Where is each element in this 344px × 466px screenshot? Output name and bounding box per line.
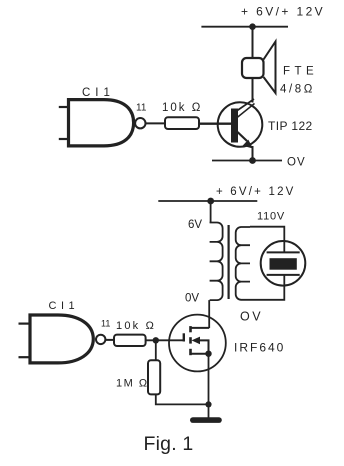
svg-text:4/8Ω: 4/8Ω xyxy=(280,84,315,96)
svg-text:+ 6V/+ 12V: + 6V/+ 12V xyxy=(216,186,296,198)
svg-text:FTE: FTE xyxy=(283,66,318,78)
svg-text:CI1: CI1 xyxy=(82,87,115,99)
svg-text:1M Ω: 1M Ω xyxy=(116,378,149,390)
svg-text:10k Ω: 10k Ω xyxy=(162,102,202,114)
svg-text:11: 11 xyxy=(136,103,147,114)
svg-text:10k Ω: 10k Ω xyxy=(116,320,156,332)
svg-text:110V: 110V xyxy=(257,210,285,222)
svg-text:CI1: CI1 xyxy=(49,300,80,312)
svg-text:OV: OV xyxy=(240,309,263,323)
svg-text:TIP 122: TIP 122 xyxy=(268,119,313,133)
svg-text:Fig. 1: Fig. 1 xyxy=(144,433,194,455)
svg-text:+ 6V/+ 12V: + 6V/+ 12V xyxy=(241,4,325,18)
svg-text:OV: OV xyxy=(287,157,306,169)
svg-text:11: 11 xyxy=(101,319,110,329)
svg-text:IRF640: IRF640 xyxy=(234,341,285,355)
svg-text:6V: 6V xyxy=(188,219,202,231)
svg-text:0V: 0V xyxy=(185,293,199,305)
